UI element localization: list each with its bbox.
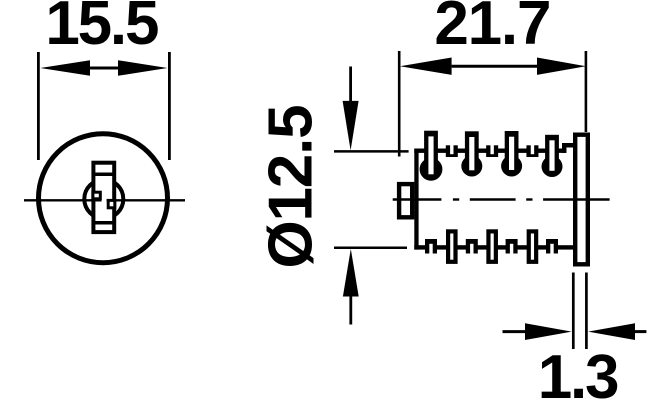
svg-text:21.7: 21.7 bbox=[434, 0, 550, 58]
svg-text:1.3: 1.3 bbox=[538, 343, 618, 400]
svg-text:Ø12.5: Ø12.5 bbox=[257, 106, 326, 269]
svg-text:15.5: 15.5 bbox=[45, 0, 158, 58]
